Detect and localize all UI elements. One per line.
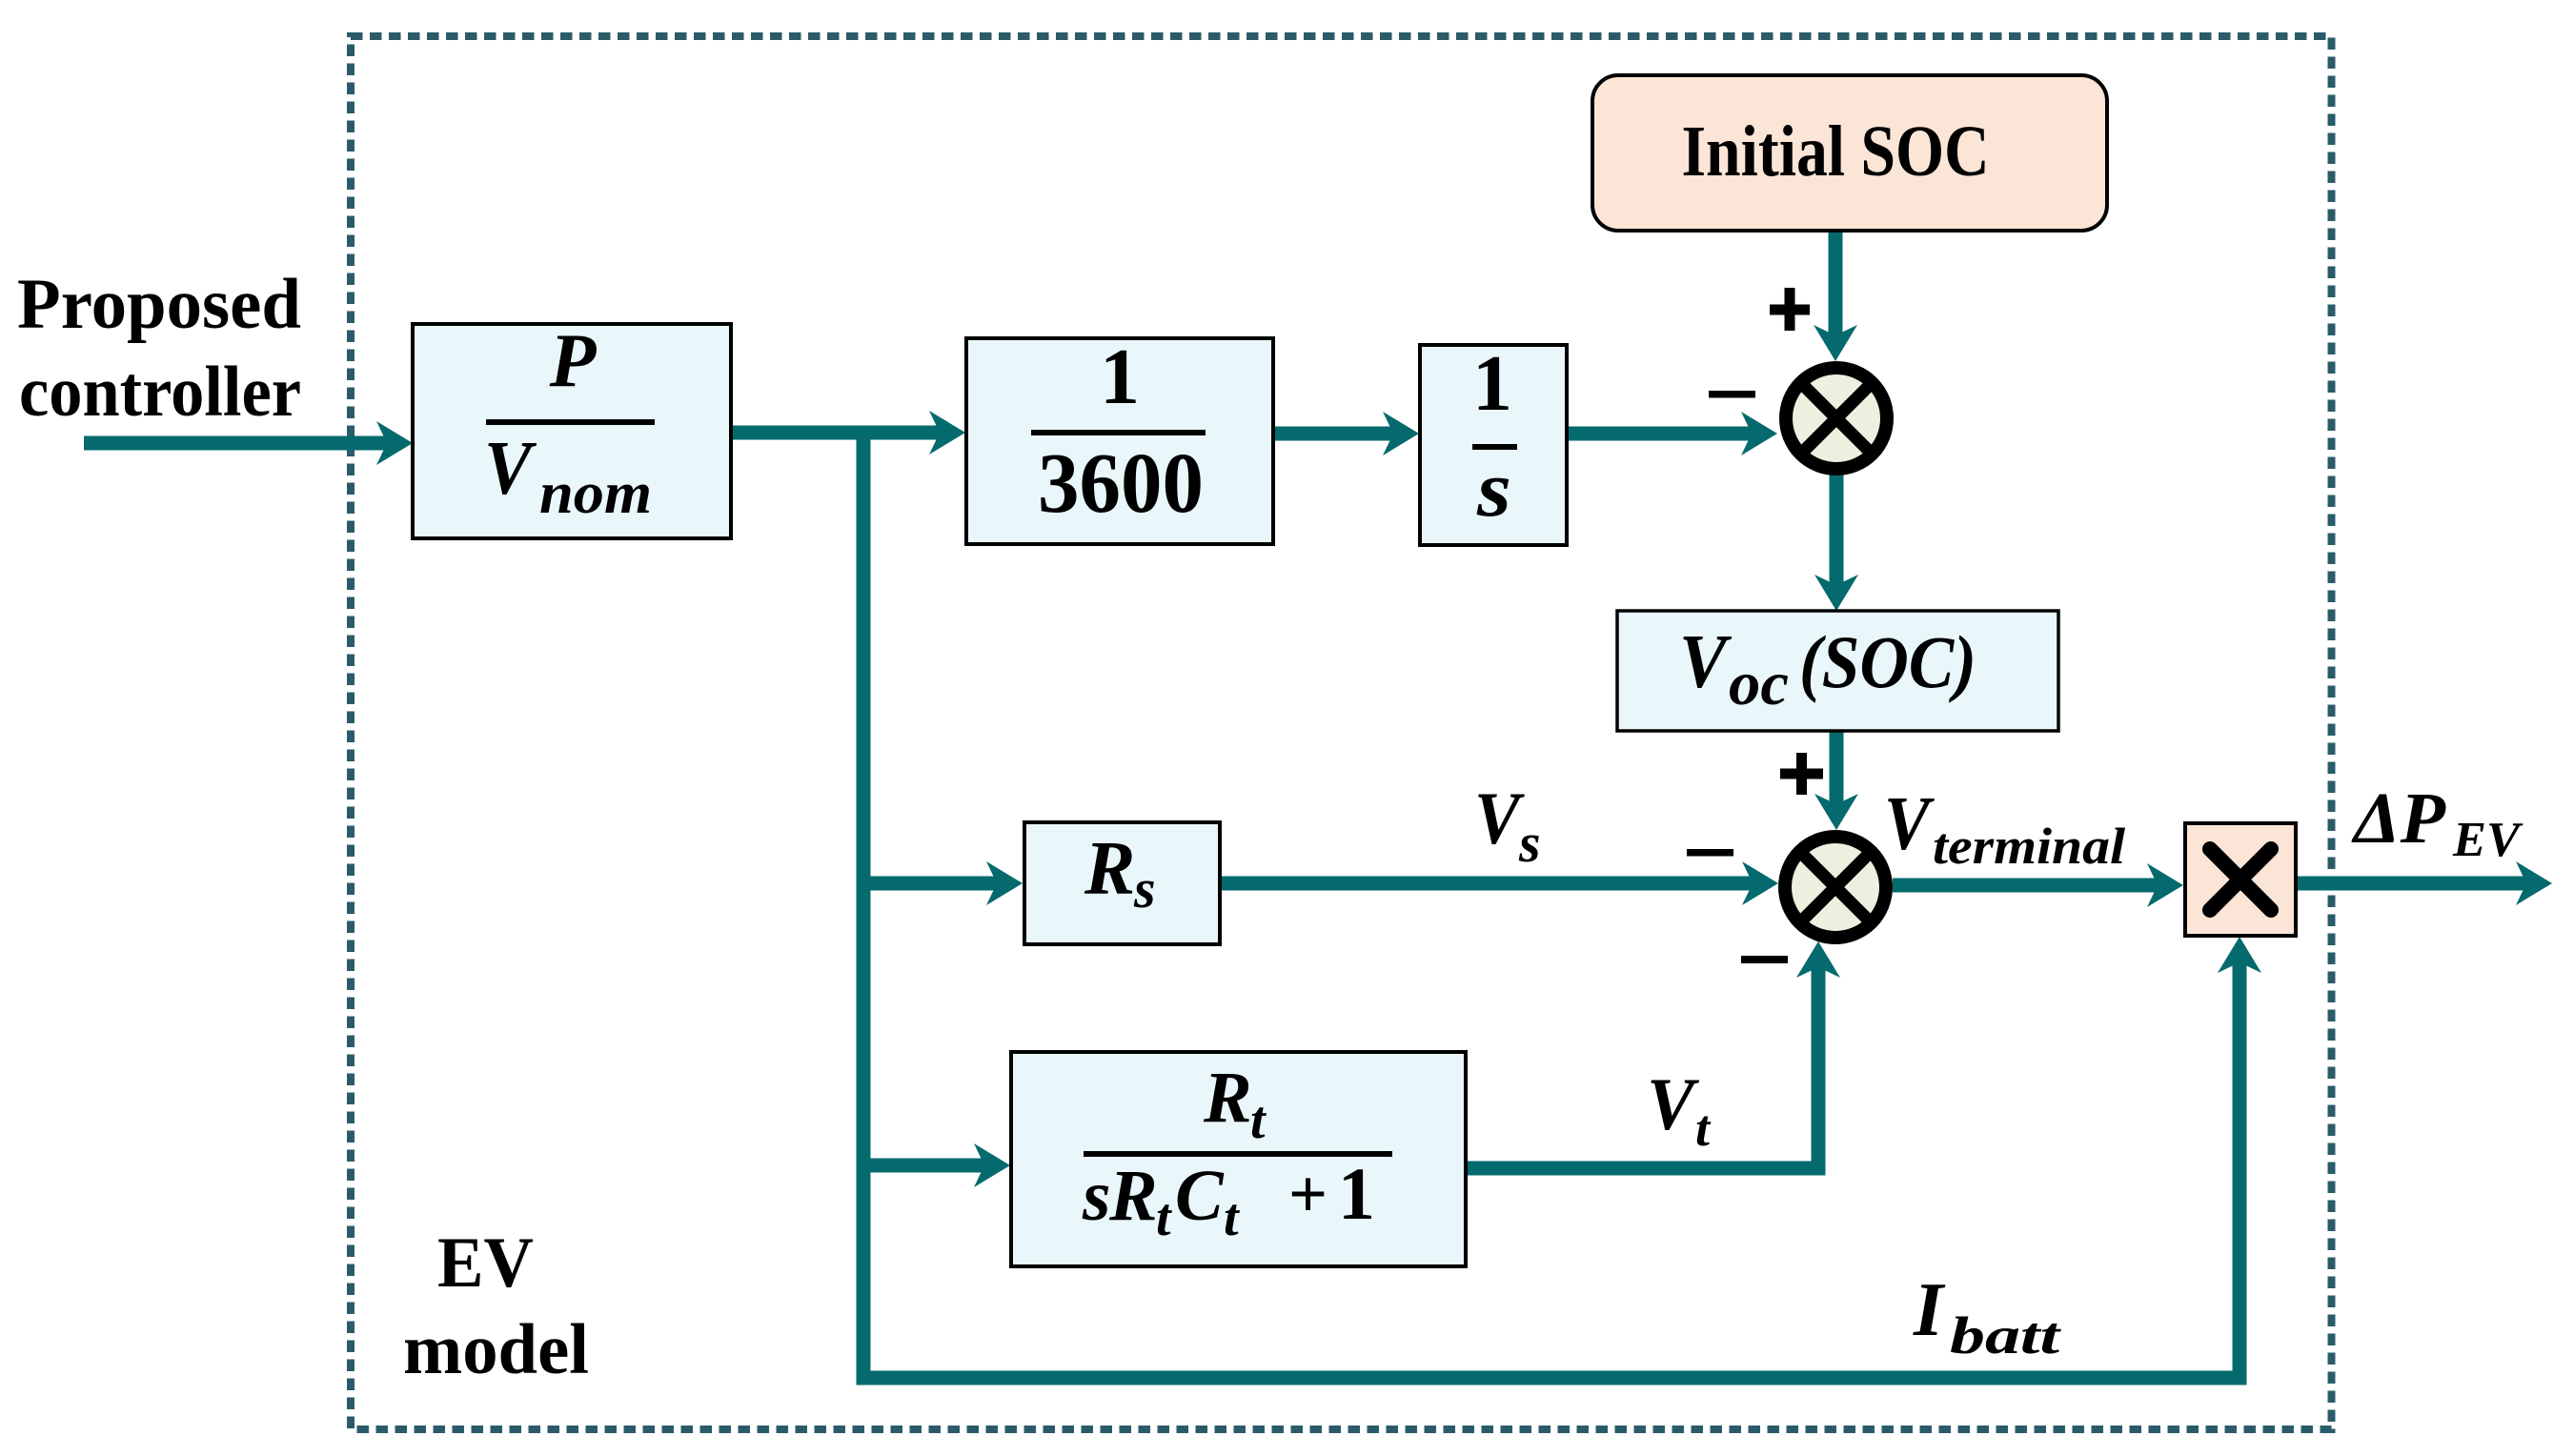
minus sign left of summing junction 2 xyxy=(1687,849,1733,857)
svg-text:s: s xyxy=(1518,812,1541,874)
svg-text:P: P xyxy=(549,319,598,403)
svg-text:Initial SOC: Initial SOC xyxy=(1682,111,1990,192)
block 1/3600 xyxy=(966,333,1273,544)
svg-text:t: t xyxy=(1156,1188,1172,1247)
svg-text:R: R xyxy=(1084,827,1135,911)
wire multiplier output dP_EV xyxy=(2296,877,2527,891)
arrowhead into summing junction 2 top xyxy=(1814,794,1858,830)
wire input from Proposed controller xyxy=(84,436,388,451)
svg-text:oc: oc xyxy=(1729,649,1789,718)
svg-text:1: 1 xyxy=(1338,1152,1375,1235)
arrowhead from Initial SOC into summing junction 1 xyxy=(1814,325,1857,361)
wire 1/s to summing junction 1 xyxy=(1567,427,1753,441)
svg-text:1: 1 xyxy=(1100,333,1140,421)
arrowhead into Voc block xyxy=(1814,575,1858,611)
summing junction 2 (terminal voltage sum) xyxy=(1785,837,1886,938)
arrowhead output dP_EV xyxy=(2516,861,2552,905)
svg-text:model: model xyxy=(403,1310,589,1389)
svg-text:terminal: terminal xyxy=(1933,818,2125,875)
svg-text:I: I xyxy=(1913,1268,1946,1352)
svg-text:nom: nom xyxy=(539,461,652,526)
arrowhead into Rs xyxy=(986,861,1023,905)
svg-text:EV: EV xyxy=(437,1223,534,1303)
svg-text:Proposed: Proposed xyxy=(17,265,301,344)
arrowhead into 1/s xyxy=(1383,412,1419,455)
minus sign at summing junction 1 xyxy=(1709,391,1755,398)
svg-text:R: R xyxy=(1108,1156,1158,1236)
svg-text:s: s xyxy=(1082,1156,1111,1236)
svg-text:s: s xyxy=(1476,445,1511,534)
dashed boundary box "EV model" xyxy=(351,36,2332,1429)
svg-text:t: t xyxy=(1224,1188,1240,1247)
svg-text:V: V xyxy=(1679,620,1732,704)
plus sign at summing junction 1 xyxy=(1770,288,1810,331)
svg-text:3600: 3600 xyxy=(1038,436,1204,531)
svg-text:V: V xyxy=(1647,1062,1700,1145)
node label I_batt xyxy=(1913,1268,2061,1365)
svg-text:V: V xyxy=(484,427,537,511)
wire summing junction 1 down to Voc xyxy=(1830,474,1844,586)
arrowhead Vt into summing junction 2 bottom xyxy=(1796,941,1840,978)
label Proposed controller xyxy=(17,265,301,432)
svg-text:+: + xyxy=(1288,1156,1328,1232)
svg-text:t: t xyxy=(1695,1100,1712,1157)
arrowhead I_batt into multiplier bottom xyxy=(2218,937,2261,973)
summing junction 1 (SOC integrator sum) xyxy=(1786,368,1887,469)
wire Rt output Vt to summing junction 2 xyxy=(1466,966,1818,1168)
block 1/s integrator xyxy=(1420,339,1567,545)
node label Vs xyxy=(1474,777,1541,874)
node label V_terminal xyxy=(1884,782,2125,875)
wire Initial SOC down to summing junction 1 xyxy=(1829,229,1843,336)
svg-text:ΔP: ΔP xyxy=(2351,779,2446,859)
arrowhead into P/Vnom xyxy=(376,421,413,465)
svg-text:controller: controller xyxy=(19,353,301,432)
svg-text:C: C xyxy=(1175,1156,1225,1236)
wire vertical branch + I_batt feedback path xyxy=(863,426,2240,1378)
wire 1/3600 to 1/s xyxy=(1273,427,1394,441)
block Voc(SOC) xyxy=(1617,611,2058,731)
multiplier block X xyxy=(2185,823,2296,936)
svg-text:V: V xyxy=(1474,777,1526,859)
svg-text:1: 1 xyxy=(1472,339,1512,428)
svg-text:V: V xyxy=(1884,782,1935,866)
arrowhead into multiplier xyxy=(2147,863,2183,907)
plus sign at summing junction 2 xyxy=(1780,753,1823,795)
block Rt/(sRtCt+1) xyxy=(1011,1052,1466,1266)
svg-text:(SOC): (SOC) xyxy=(1799,620,1976,703)
arrowhead into 1/3600 xyxy=(929,411,965,455)
wire summing junction 2 to multiplier xyxy=(1893,879,2159,893)
svg-text:EV: EV xyxy=(2452,813,2523,867)
arrowhead into summing junction 2 left xyxy=(1742,861,1778,905)
wire P/Vnom output to 1/3600 with branch node xyxy=(731,426,941,440)
minus sign below summing junction 2 xyxy=(1741,956,1788,963)
arrowhead into summing junction 1 left xyxy=(1741,412,1777,455)
block P/Vnom xyxy=(413,319,731,538)
svg-text:t: t xyxy=(1250,1091,1267,1150)
svg-text:batt: batt xyxy=(1950,1306,2061,1365)
block Rs xyxy=(1024,822,1220,944)
wire Rs output Vs to summing junction 2 xyxy=(1220,877,1753,891)
wire stub to Rs xyxy=(863,877,998,891)
wire stub to Rt xyxy=(863,1159,985,1173)
node label Vt xyxy=(1647,1062,1712,1157)
wire Voc down to summing junction 2 xyxy=(1830,729,1844,805)
node label dP_EV output xyxy=(2351,779,2523,867)
block Initial SOC xyxy=(1592,75,2107,231)
svg-text:R: R xyxy=(1203,1058,1252,1138)
label EV model xyxy=(403,1223,589,1389)
svg-text:s: s xyxy=(1133,858,1156,920)
arrowhead into Rt xyxy=(974,1143,1010,1187)
